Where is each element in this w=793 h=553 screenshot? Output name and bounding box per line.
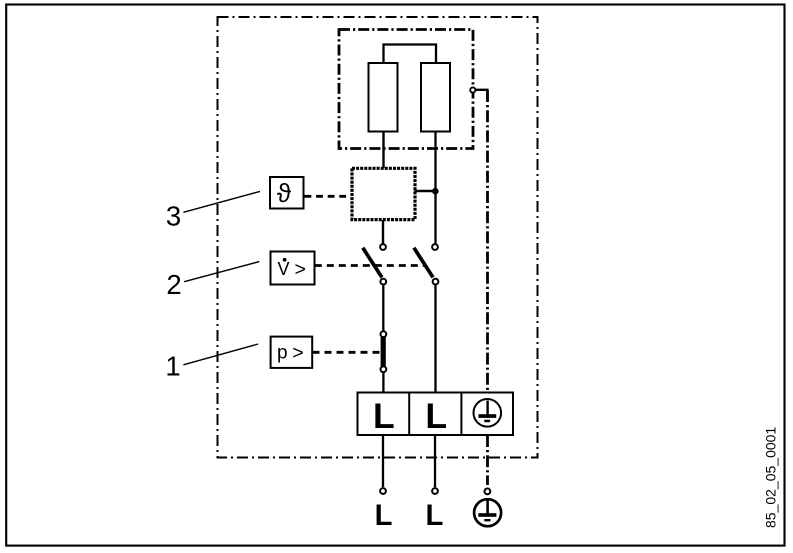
- svg-text:ϑ: ϑ: [277, 178, 292, 208]
- appliance boundary (outer dash-dot box): [218, 17, 538, 458]
- PE terminal symbol in block: [474, 399, 502, 427]
- leader line 2: [184, 262, 259, 282]
- svg-text:85_02_05_0001: 85_02_05_0001: [763, 427, 779, 528]
- wire: left switch to pressure contact: [382, 285, 384, 330]
- junction dot: [432, 188, 439, 195]
- wire: PE below block (dash-dot): [486, 435, 489, 485]
- svg-text:3: 3: [166, 201, 181, 232]
- svg-text:L: L: [425, 396, 447, 436]
- wire: pressure contact to terminal block: [382, 373, 384, 393]
- svg-text:>: >: [292, 342, 303, 364]
- svg-text:V: V: [278, 259, 290, 279]
- dashed link: sensor to thermostat: [305, 195, 352, 198]
- svg-text:>: >: [295, 258, 306, 280]
- terminal: PE pick-off circle on heater boundary: [470, 87, 475, 92]
- heating element E2 (right resistor): [421, 63, 450, 132]
- switch S1a (left flow switch contact): [380, 244, 386, 250]
- terminal circle PE: [485, 489, 491, 495]
- pressure contact (closed): [381, 331, 387, 337]
- svg-text:2: 2: [166, 269, 181, 300]
- dashed link: V> to switches: [315, 264, 426, 267]
- flow sensor box V>: [271, 252, 315, 285]
- wire: E2 bottom down to switch (right phase): [434, 132, 436, 244]
- wire: right switch to terminal block: [434, 285, 436, 392]
- svg-text:1: 1: [165, 350, 180, 381]
- dashed link: p> to pressure contact: [313, 351, 382, 354]
- wire: L2 below block: [434, 435, 436, 487]
- terminal block: [358, 393, 514, 436]
- svg-text:p: p: [277, 342, 288, 363]
- switch S1b (right flow switch contact): [432, 244, 438, 250]
- wire: top jumper between heating elements: [384, 45, 437, 65]
- wire: PE conductor dash-dot vertical to terminal block: [486, 90, 489, 393]
- svg-text:L: L: [425, 500, 443, 532]
- svg-text:L: L: [373, 396, 395, 436]
- heating element E1 (left resistor): [369, 63, 398, 132]
- terminal circle L2: [432, 488, 438, 494]
- wire: L1 below block: [382, 435, 384, 487]
- sensor box with theta: [270, 177, 304, 209]
- heater assembly boundary (inner dash-dot box): [339, 30, 473, 149]
- wire: PE stub from circle: [475, 89, 488, 91]
- leader line 1: [183, 344, 258, 365]
- PE earth symbol (bottom): [474, 499, 501, 526]
- leader line 3: [183, 191, 260, 212]
- wire: thermostat bottom down: [382, 220, 384, 244]
- svg-text:L: L: [375, 500, 393, 532]
- wire: E1 bottom to thermostat box: [382, 132, 384, 170]
- thermostat (dotted box): [352, 168, 415, 219]
- wire: thermostat right to phase wire: [415, 190, 437, 193]
- terminal circle L1: [380, 488, 386, 494]
- pressure sensor box p>: [271, 337, 313, 368]
